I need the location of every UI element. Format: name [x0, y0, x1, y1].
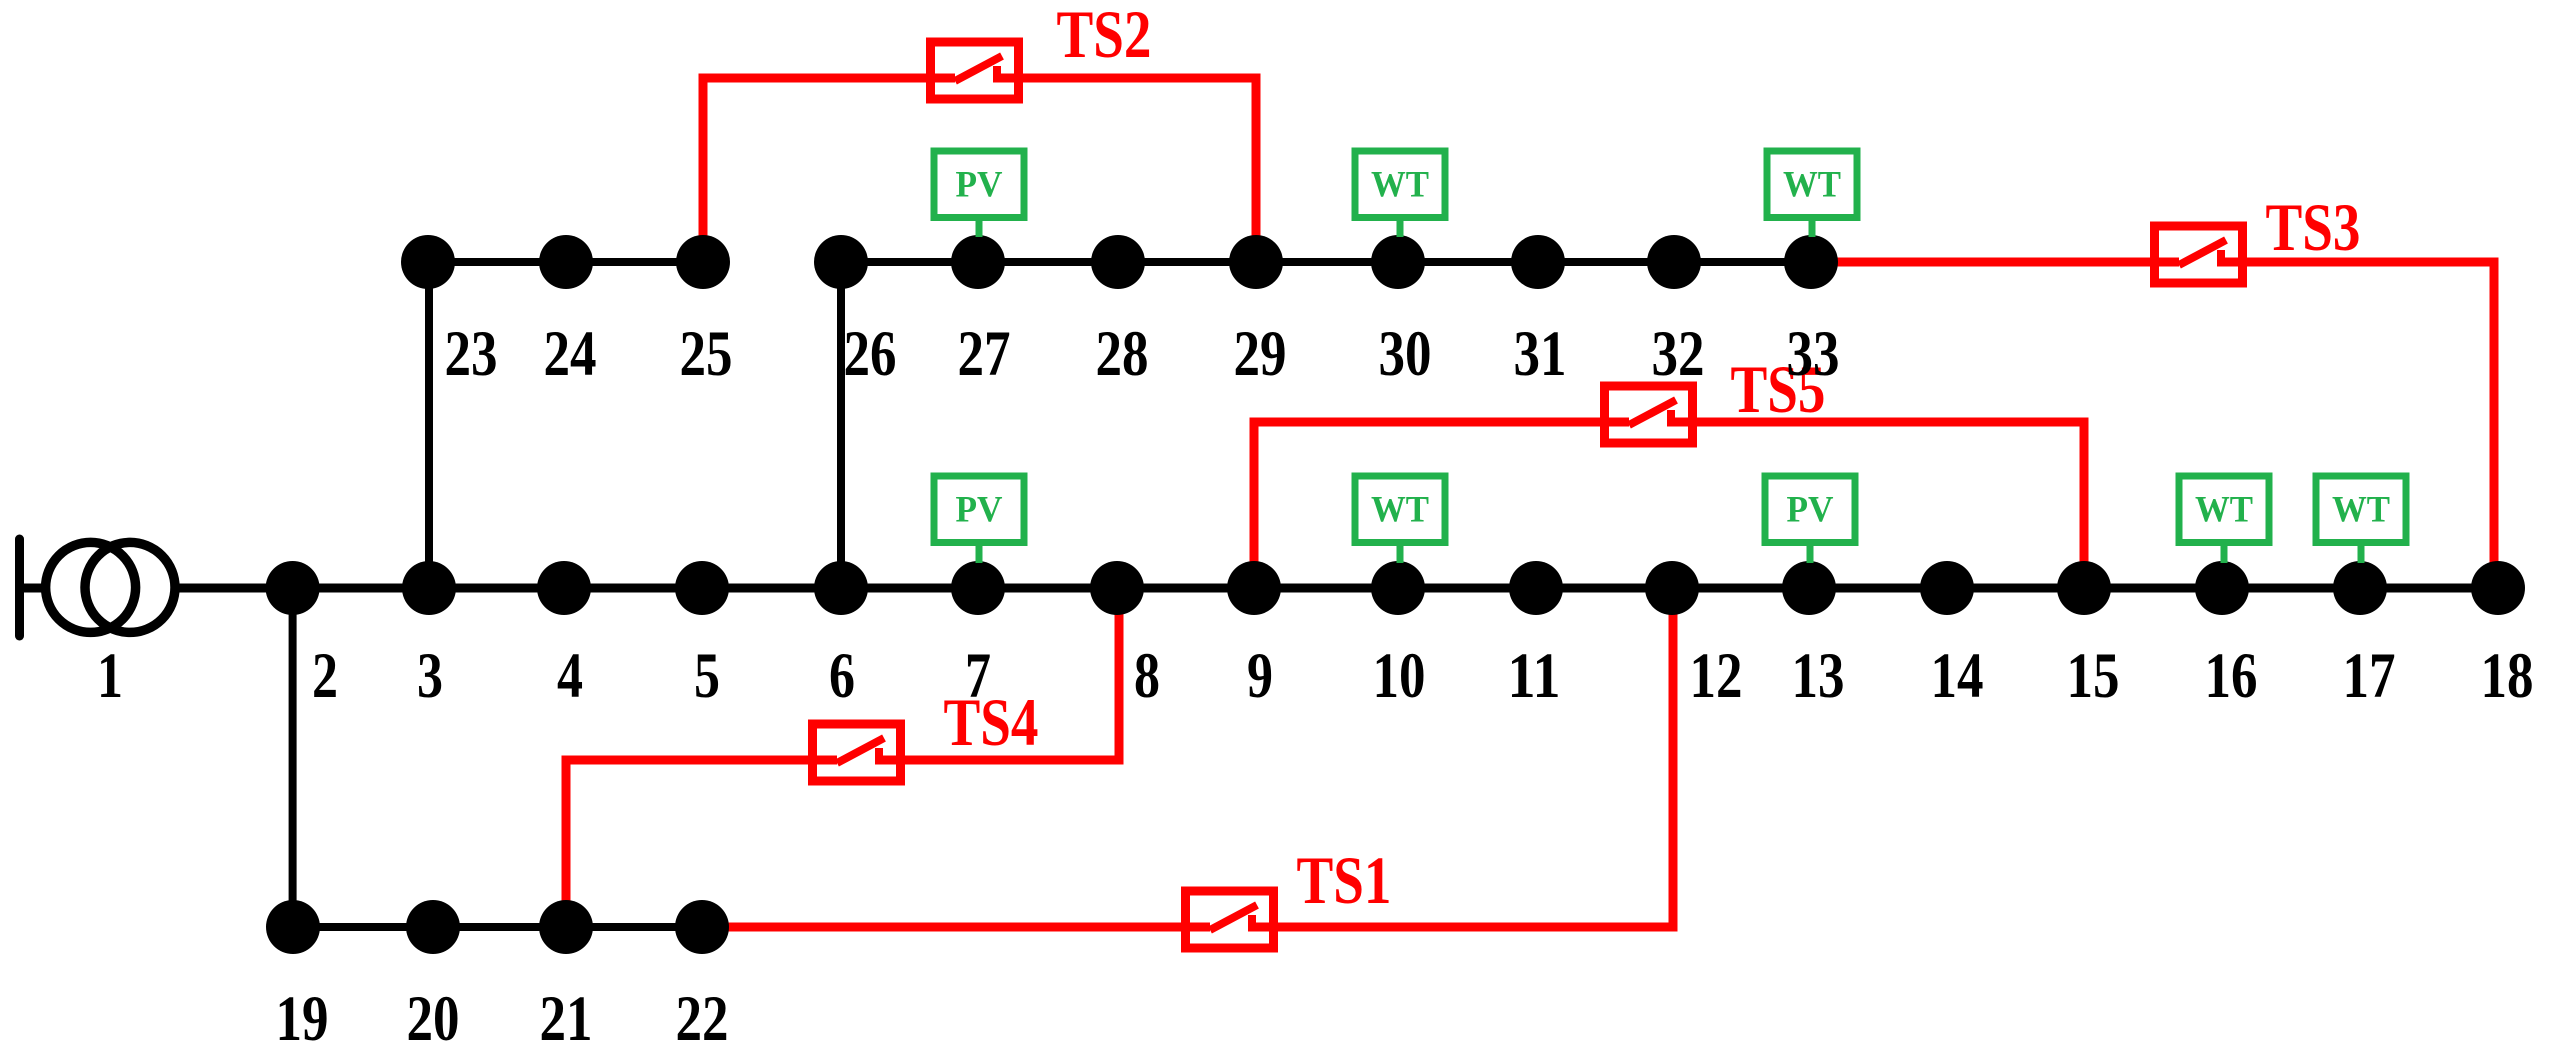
node 14	[1920, 561, 1974, 615]
wire top branch 26-33	[841, 258, 1811, 266]
node 3	[402, 561, 456, 615]
tie switch TS3	[2150, 226, 2247, 283]
node 12	[1645, 561, 1699, 615]
node 27	[951, 235, 1005, 289]
tie switch TS2	[926, 42, 1023, 99]
svg-text:11: 11	[1508, 640, 1561, 712]
node 28	[1091, 235, 1145, 289]
node 18	[2471, 561, 2525, 615]
svg-text:16: 16	[2205, 640, 2258, 712]
node 22	[675, 900, 729, 954]
svg-text:6: 6	[829, 640, 855, 712]
svg-text:32: 32	[1652, 318, 1705, 390]
node 7	[951, 561, 1005, 615]
node 24	[539, 235, 593, 289]
svg-text:25: 25	[680, 318, 733, 390]
wire tie TS2: node 25 - node 29	[703, 78, 1256, 262]
svg-text:TS3: TS3	[2266, 189, 2361, 265]
node 29	[1229, 235, 1283, 289]
wire tie TS4: node 8 - node 21	[566, 588, 1119, 927]
svg-text:27: 27	[958, 318, 1011, 390]
svg-text:28: 28	[1096, 318, 1149, 390]
node 15	[2057, 561, 2111, 615]
svg-text:PV: PV	[956, 490, 1003, 531]
node 25	[676, 235, 730, 289]
svg-text:9: 9	[1247, 640, 1273, 712]
svg-text:1: 1	[97, 640, 123, 712]
WT unit at node 33	[1767, 151, 1857, 237]
svg-text:15: 15	[2067, 640, 2120, 712]
wire node 2 to node 19	[289, 588, 297, 927]
PV unit at node 13	[1765, 476, 1855, 563]
svg-text:WT: WT	[1371, 165, 1429, 206]
node 26	[814, 235, 868, 289]
wire tie TS5: node 9 - node 15	[1254, 422, 2084, 588]
svg-text:WT: WT	[1783, 165, 1841, 206]
svg-text:23: 23	[445, 318, 498, 390]
svg-text:PV: PV	[1787, 490, 1834, 531]
svg-text:20: 20	[407, 983, 460, 1054]
WT unit at node 30	[1355, 151, 1445, 237]
node 23	[401, 235, 455, 289]
node 11	[1509, 561, 1563, 615]
svg-text:7: 7	[965, 640, 991, 712]
svg-text:30: 30	[1379, 318, 1432, 390]
wire top branch 23-25	[428, 258, 703, 266]
wire node 3 to node 23	[425, 262, 433, 588]
PV unit at node 27	[934, 151, 1024, 237]
node 32	[1647, 235, 1701, 289]
svg-text:PV: PV	[956, 165, 1003, 206]
svg-text:TS1: TS1	[1297, 842, 1392, 918]
svg-text:WT: WT	[1371, 490, 1429, 531]
svg-text:12: 12	[1690, 640, 1743, 712]
svg-text:2: 2	[312, 640, 338, 712]
svg-text:29: 29	[1234, 318, 1287, 390]
wire tie TS1: node 22 - node 12	[702, 588, 1673, 927]
svg-text:21: 21	[540, 983, 593, 1054]
svg-text:33: 33	[1787, 318, 1840, 390]
svg-text:5: 5	[694, 640, 720, 712]
WT unit at node 10	[1355, 476, 1445, 563]
node 10	[1371, 561, 1425, 615]
node 8	[1090, 561, 1144, 615]
node 21	[539, 900, 593, 954]
wire node 6 to node 26	[837, 262, 845, 588]
WT unit at node 16	[2179, 476, 2269, 563]
wire main feeder bus 1-18	[175, 584, 2498, 593]
tie switch TS4	[808, 724, 905, 781]
svg-text:19: 19	[276, 983, 329, 1054]
node 5	[675, 561, 729, 615]
svg-text:18: 18	[2481, 640, 2534, 712]
svg-text:31: 31	[1514, 318, 1567, 390]
tie switch TS5	[1600, 386, 1697, 443]
svg-text:17: 17	[2343, 640, 2396, 712]
node 33	[1784, 235, 1838, 289]
tie switch TS1	[1181, 891, 1278, 948]
wire bottom branch 19-22	[293, 923, 702, 931]
svg-text:8: 8	[1134, 640, 1160, 712]
svg-text:4: 4	[557, 640, 583, 712]
node 6	[814, 561, 868, 615]
svg-text:26: 26	[844, 318, 897, 390]
node 30	[1371, 235, 1425, 289]
node 31	[1511, 235, 1565, 289]
node 2	[266, 561, 320, 615]
wire tie TS3: node 33 - node 18	[1811, 262, 2494, 588]
node 16	[2195, 561, 2249, 615]
node 20	[406, 900, 460, 954]
node 4	[537, 561, 591, 615]
svg-text:10: 10	[1373, 640, 1426, 712]
node 17	[2333, 561, 2387, 615]
svg-text:22: 22	[676, 983, 729, 1054]
svg-text:24: 24	[544, 318, 597, 390]
svg-text:TS4: TS4	[944, 684, 1039, 760]
svg-text:WT: WT	[2195, 490, 2253, 531]
svg-text:3: 3	[417, 640, 443, 712]
node 19	[266, 900, 320, 954]
node 9	[1227, 561, 1281, 615]
svg-text:13: 13	[1792, 640, 1845, 712]
svg-text:14: 14	[1931, 640, 1984, 712]
svg-text:WT: WT	[2332, 490, 2390, 531]
node 13	[1782, 561, 1836, 615]
PV unit at node 7	[934, 476, 1024, 563]
source transformer at bus 1	[20, 539, 176, 636]
svg-text:TS2: TS2	[1057, 0, 1152, 72]
WT unit at node 17	[2316, 476, 2406, 563]
